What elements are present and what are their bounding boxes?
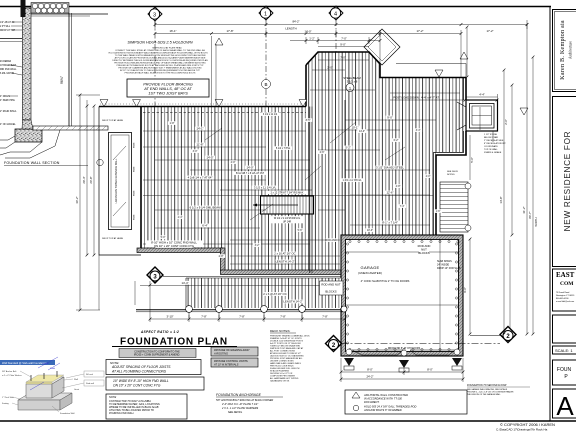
svg-text:78 Dowd Road: 78 Dowd Road [556, 292, 569, 294]
svg-text:B: B [264, 82, 267, 87]
svg-text:8'-5": 8'-5" [306, 119, 311, 122]
garage door drop trapezoids [352, 350, 403, 355]
svg-text:86'-7": 86'-7" [528, 211, 532, 218]
svg-text:6 MIL VAPOR: 6 MIL VAPOR [0, 72, 15, 75]
svg-text:2 PT SILL: 2 PT SILL [0, 26, 11, 28]
svg-text:KNEE: KNEE [134, 190, 136, 196]
svg-text:1 3/4 x 11 7/8 LVL: 1 3/4 x 11 7/8 LVL [342, 179, 362, 182]
svg-text:Foundation Wall: Foundation Wall [60, 412, 75, 415]
svg-text:17'-8": 17'-8" [226, 29, 233, 33]
svg-text:10'-1": 10'-1" [351, 126, 358, 130]
svg-text:GALVANIZED OR SS: GALVANIZED OR SS [270, 380, 290, 383]
svg-text:7'-0": 7'-0" [341, 37, 347, 41]
svg-text:3'-10": 3'-10" [166, 315, 173, 319]
svg-text:DROP AT TOP: DROP AT TOP [0, 29, 16, 32]
svg-text:DROP FND 8" AT OH DOORS: DROP FND 8" AT OH DOORS [388, 347, 421, 350]
svg-text:FOUNDATION TO SECOND FLOOR: FOUNDATION TO SECOND FLOOR [467, 384, 507, 387]
svg-text:14'-0": 14'-0" [304, 29, 311, 33]
svg-text:1ST TWO JOIST BAYS: 1ST TWO JOIST BAYS [148, 92, 188, 96]
svg-text:2'-6": 2'-6" [320, 151, 325, 154]
svg-text:(UNEXCAVATED): (UNEXCAVATED) [358, 271, 382, 275]
wall interior face line [68, 13, 70, 127]
svg-text:ON 10" x 20" CONT CONC FTG: ON 10" x 20" CONT CONC FTG [154, 244, 194, 248]
svg-text:4: 4 [334, 11, 337, 17]
svg-text:POST LOAD DOWN: POST LOAD DOWN [393, 96, 419, 100]
fnd wall box [106, 377, 204, 390]
svg-text:7'-4": 7'-4" [400, 205, 405, 208]
svg-text:1: 1 [264, 11, 267, 17]
paragraph small [108, 47, 208, 75]
svg-text:14'-1": 14'-1" [196, 127, 203, 131]
circle markers [262, 80, 271, 89]
top wall of left block [99, 106, 306, 108]
rotated square (dormer outline above bay) [364, 29, 400, 65]
svg-text:5 1/4 x 7 PSL: 5 1/4 x 7 PSL [276, 147, 291, 150]
svg-text:FOUN: FOUN [557, 367, 572, 373]
svg-text:ROD AND NUT: ROD AND NUT [321, 283, 341, 287]
control joints box [211, 358, 258, 367]
svg-text:Footing: Footing [2, 402, 9, 405]
conform box [119, 349, 196, 358]
svg-text:IN ACCORDANCE WITH TT-100: IN ACCORDANCE WITH TT-100 [364, 397, 402, 401]
svg-text:8" RECESS AT FRONT: 8" RECESS AT FRONT [484, 142, 506, 145]
svg-text:Wall Standard @ Slab-wall Foun: Wall Standard @ Slab-wall Foundation [2, 361, 47, 365]
top dim row 1 [155, 24, 527, 26]
svg-text:17'-2": 17'-2" [486, 29, 493, 33]
svg-text:14'-8": 14'-8" [499, 196, 503, 203]
svg-text:APA PORTAL WALL CONSTRUCTED: APA PORTAL WALL CONSTRUCTED [363, 393, 408, 397]
svg-text:5'-6": 5'-6" [298, 229, 303, 232]
svg-text:2 x 12 STR AT 7 3/4" RIS MAX: 2 x 12 STR AT 7 3/4" RIS MAX [271, 192, 304, 195]
right vertical chains [503, 70, 505, 334]
contractor note box [106, 394, 187, 419]
center stairs [253, 191, 314, 224]
joist field: bay + upper blocks [143, 52, 466, 270]
svg-text:COORDINATE: COORDINATE [484, 145, 498, 148]
svg-text:14'-4": 14'-4" [181, 281, 188, 285]
svg-text:© COPYRIGHT 2006 / KAREN: © COPYRIGHT 2006 / KAREN [500, 422, 555, 427]
svg-text:7'-8": 7'-8" [201, 315, 207, 319]
svg-text:A ROOTING: A ROOTING [213, 353, 228, 356]
svg-text:3 1/2 x 8: 3 1/2 x 8 [347, 80, 358, 84]
svg-text:20'-8": 20'-8" [89, 176, 93, 183]
svg-text:NEW RESIDENCE FOR: NEW RESIDENCE FOR [563, 131, 572, 232]
svg-text:3 1/2" DIA ADJ STEEL: 3 1/2" DIA ADJ STEEL [376, 166, 404, 170]
svg-text:POURING FND WALL: POURING FND WALL [109, 412, 135, 415]
internal dim lines horizontals [143, 130, 306, 132]
svg-text:A: A [556, 391, 574, 421]
top dim row 2 [155, 33, 461, 35]
left deck frame [109, 133, 132, 230]
svg-text:FOUNDATION ANCHORAGE: FOUNDATION ANCHORAGE [216, 393, 262, 397]
svg-text:Architecture: Architecture [569, 41, 573, 59]
svg-text:DOCUMENT.: DOCUMENT. [364, 400, 380, 404]
svg-text:HOLD 505 24 X 5/8" GALL THREAD: HOLD 505 24 X 5/8" GALL THREADED ROD [364, 405, 416, 409]
svg-text:AT 10' W INTERVALS: AT 10' W INTERVALS [213, 364, 239, 367]
svg-text:SIMPSON HDU4-SDS 2.5 HOLDOWN: SIMPSON HDU4-SDS 2.5 HOLDOWN [127, 41, 192, 45]
svg-text:B 1/2 AB 7 x 8 LVL AT JST: B 1/2 AB 7 x 8 LVL AT JST [236, 172, 265, 175]
svg-text:31'-2": 31'-2" [522, 206, 526, 213]
left bottom extension [134, 281, 136, 305]
svg-text:FOUNDATION WALL SECTION: FOUNDATION WALL SECTION [4, 161, 60, 165]
garage right dim vertical [469, 239, 471, 334]
svg-text:1'-6": 1'-6" [436, 210, 441, 213]
svg-text:FOUNDATION PLAN: FOUNDATION PLAN [120, 337, 228, 348]
border frame right [549, 7, 551, 422]
svg-text:2'-8": 2'-8" [219, 255, 224, 258]
svg-text:1'-2": 1'-2" [309, 37, 315, 41]
svg-text:Newington CT 06111: Newington CT 06111 [556, 294, 575, 297]
warning triangle [215, 38, 223, 45]
bottom dims below garage [341, 371, 463, 373]
garage anchor bolts [346, 240, 459, 350]
svg-text:ON 10" x 20" CONT CONC FTG: ON 10" x 20" CONT CONC FTG [113, 384, 161, 388]
svg-text:EAST: EAST [556, 271, 575, 279]
svg-text:4" PERF PIPE: 4" PERF PIPE [0, 100, 15, 102]
svg-text:GARAGE: GARAGE [361, 265, 380, 270]
architect name box [553, 10, 576, 92]
svg-text:2'-6": 2'-6" [504, 119, 508, 125]
bottom dims left plan [140, 285, 330, 287]
svg-text:7'-8": 7'-8" [239, 315, 245, 319]
svg-text:Wall: Wall [74, 379, 78, 381]
svg-text:ASPECT RATIO = 1:2: ASPECT RATIO = 1:2 [140, 330, 179, 334]
svg-text:2 x 6 @ AT 16" OC: 2 x 6 @ AT 16" OC [263, 292, 286, 296]
svg-text:ANCHOR BOLTS 8" OF EMBED: ANCHOR BOLTS 8" OF EMBED [363, 408, 402, 412]
garage [341, 235, 463, 372]
note adjust box [106, 360, 201, 375]
svg-text:96⅛": 96⅛" [60, 75, 64, 84]
svg-text:1'-8": 1'-8" [170, 122, 175, 125]
svg-text:8'-1" x 7 1/4": 8'-1" x 7 1/4" [382, 221, 398, 225]
svg-text:1/2" AB AT 4C: 1/2" AB AT 4C [0, 21, 15, 24]
svg-text:LENGTH 14'-2": LENGTH 14'-2" [283, 300, 302, 304]
svg-text:DROP TOP AT HERE: DROP TOP AT HERE [102, 119, 124, 122]
svg-text:4'-4" x 4'-7" AT: 4'-4" x 4'-7" AT [421, 96, 439, 100]
svg-text:SEE DETAIL: SEE DETAIL [228, 411, 243, 414]
svg-text:14'-0": 14'-0" [246, 166, 253, 170]
dim arrows above [38, 357, 58, 368]
anchor bolts [30, 375, 32, 381]
top dim row 3 [290, 40, 380, 42]
provide grading box [211, 347, 258, 356]
svg-text:2'-0": 2'-0" [327, 66, 333, 70]
svg-text:1" Thick Slab: 1" Thick Slab [2, 397, 15, 399]
svg-text:DECK NOTES:: DECK NOTES: [270, 329, 291, 333]
residence-for box [553, 97, 576, 267]
concrete fnd wall (stippled) [23, 8, 32, 120]
svg-text:2 x 10 AT 16" OC: 2 x 10 AT 16" OC [274, 252, 295, 256]
floor line below insulation [31, 13, 108, 15]
svg-text:4'-0": 4'-0" [231, 161, 236, 164]
svg-text:14'-5": 14'-5" [206, 156, 213, 160]
svg-text:29'-4": 29'-4" [82, 176, 86, 183]
svg-text:24'-2": 24'-2" [366, 375, 373, 379]
svg-text:7'-8": 7'-8" [322, 315, 328, 319]
garage footings [344, 349, 462, 372]
svg-text:30'-2": 30'-2" [75, 196, 79, 203]
svg-text:8'-0": 8'-0" [427, 368, 433, 372]
svg-text:KNEE: KNEE [134, 166, 136, 172]
svg-text:1 1/2" STONE: 1 1/2" STONE [484, 134, 498, 136]
svg-text:MID FND WALL: MID FND WALL [0, 68, 17, 71]
svg-text:3 1/2 x 11 1/4 LVL: 3 1/2 x 11 1/4 LVL [254, 186, 277, 190]
right deck stairs [440, 171, 471, 232]
svg-text:DROP 10" FOR SLAB: DROP 10" FOR SLAB [437, 267, 461, 270]
svg-text:5/8" ANCHOR BOLT SPACING AT BL: 5/8" ANCHOR BOLT SPACING AT BLDG CORNER [216, 399, 273, 402]
svg-text:6'-4": 6'-4" [202, 224, 208, 228]
svg-text:12'-6": 12'-6" [386, 191, 393, 195]
svg-text:8'-0": 8'-0" [367, 368, 373, 372]
svg-text:3'-4": 3'-4" [416, 129, 421, 132]
svg-text:LANDSCAPE TIMBER RETAINING WAL: LANDSCAPE TIMBER RETAINING WALL [115, 158, 118, 203]
deck lower joist field [186, 278, 341, 308]
svg-text:16'-1": 16'-1" [169, 29, 176, 33]
svg-text:7'-8": 7'-8" [280, 315, 286, 319]
svg-text:6 1/2 x 9 1/4 GML BEAM: 6 1/2 x 9 1/4 GML BEAM [190, 206, 222, 210]
svg-text:3: 3 [153, 12, 156, 18]
empty revision box [553, 315, 576, 343]
svg-text:84'-2": 84'-2" [292, 20, 299, 24]
svg-text:2'-0": 2'-0" [426, 175, 431, 178]
svg-text:Width: Width [50, 367, 55, 370]
wall stub [26, 377, 64, 384]
svg-text:KNEE: KNEE [134, 214, 136, 220]
svg-text:SEE DECK: SEE DECK [447, 171, 459, 173]
top right extension verticals [466, 27, 468, 77]
svg-text:ROD AND: ROD AND [326, 239, 337, 242]
svg-text:5'-0": 5'-0" [161, 236, 166, 239]
border frame bottom [0, 420, 576, 422]
svg-text:UP 14R: UP 14R [283, 221, 292, 224]
deck posts row [136, 306, 347, 318]
sheet number box [553, 389, 576, 418]
svg-text:PROVIDE AT EACH WALL IN ADDITI: PROVIDE AT EACH WALL IN ADDITION TO THE … [125, 72, 196, 75]
svg-text:C:\DataCAD 17\Drawings\7th Roc: C:\DataCAD 17\Drawings\7th Rock Ha [496, 428, 548, 432]
footing [15, 129, 42, 142]
dimension tick slashes [79, 23, 535, 380]
grade lines below footing [0, 136, 15, 140]
grade line left of wall [0, 38, 22, 40]
left vertical chains [79, 95, 81, 310]
svg-text:4 2x8 1/4 x 7 AT 64": 4 2x8 1/4 x 7 AT 64" [188, 176, 213, 180]
svg-text:2" RECESS AT SIDE: 2" RECESS AT SIDE [484, 139, 504, 142]
scale strip [553, 346, 576, 354]
sheet title box [553, 360, 576, 385]
svg-text:e-mail kbk@aol.com: e-mail kbk@aol.com [556, 301, 574, 303]
steel beam line [344, 100, 346, 235]
holdown triangles top [100, 70, 528, 115]
slab line [33, 126, 108, 130]
svg-text:3'-2": 3'-2" [255, 244, 260, 247]
dimension labels [75, 20, 538, 379]
svg-text:BELOW STAIR: BELOW STAIR [484, 136, 499, 139]
svg-text:3'-0": 3'-0" [193, 150, 198, 153]
svg-text:NOTES: NOTES [447, 174, 455, 176]
svg-text:AT END WALLS, 48" OC AT: AT END WALLS, 48" OC AT [143, 87, 192, 91]
grid lines [154, 21, 156, 106]
svg-text:9'-0": 9'-0" [387, 116, 393, 120]
scattered joist-field labels [159, 112, 442, 258]
svg-text:AT ALL PLUMBING CONNECTIONS: AT ALL PLUMBING CONNECTIONS [111, 369, 167, 373]
svg-text:BLOCKS: BLOCKS [325, 290, 336, 294]
svg-text:DROP TOP AT HERE: DROP TOP AT HERE [102, 237, 124, 240]
svg-text:STAIRS & GRADE: STAIRS & GRADE [484, 151, 502, 154]
svg-text:3 1/2 x 11 1/4: 3 1/2 x 11 1/4 [263, 113, 278, 116]
svg-text:IRC/05 + CONN SUPPLEMENT & AME: IRC/05 + CONN SUPPLEMENT & AMEND. [134, 354, 180, 357]
white label boxes right [84, 371, 104, 377]
project box EAST/COM [553, 269, 576, 311]
left block left wall [140, 107, 142, 249]
svg-text:TOP OF WALL: TOP OF WALL [484, 148, 499, 151]
svg-text:Sill seal: Sill seal [86, 374, 93, 376]
svg-text:PROVIDE FLOOR BRACING: PROVIDE FLOOR BRACING [143, 83, 193, 87]
svg-text:SCALE: 1: SCALE: 1 [555, 348, 573, 353]
svg-text:Grout: Grout [74, 388, 79, 391]
leader labels [2, 370, 79, 415]
left outer edge [99, 107, 141, 256]
leader labels left of wall [0, 21, 17, 126]
svg-text:LENGTH 14'-2": LENGTH 14'-2" [275, 260, 294, 264]
border frame top [0, 6, 551, 8]
svg-text:5'-6": 5'-6" [470, 157, 474, 163]
right side short dims near stoop [466, 96, 498, 98]
svg-text:Stud wall: Stud wall [86, 382, 95, 385]
svg-text:4'-0" MAX O.C. AT PLATE 7 1/4": 4'-0" MAX O.C. AT PLATE 7 1/4" [222, 403, 258, 406]
svg-text:9'-6": 9'-6" [463, 287, 467, 293]
svg-text:11'-8": 11'-8" [197, 143, 204, 147]
row 4 [318, 46, 369, 48]
portal wall note box [345, 390, 467, 414]
svg-text:14'-0": 14'-0" [359, 130, 365, 133]
svg-text:860-665-0596: 860-665-0596 [556, 298, 569, 300]
svg-text:#4 REBAR: #4 REBAR [0, 60, 11, 63]
concrete base 3d [18, 393, 72, 400]
svg-text:17'-2": 17'-2" [416, 29, 423, 33]
svg-text:4" CONC SLAB PITCH 2" TO OH DO: 4" CONC SLAB PITCH 2" TO OH DOORS [361, 279, 410, 283]
blue dim arrows [30, 382, 44, 390]
svg-text:THE LENGTH OF THE GARAGE WALL: THE LENGTH OF THE GARAGE WALL [467, 393, 501, 396]
grid markers top [147, 6, 516, 352]
svg-text:KNEE: KNEE [134, 142, 136, 148]
floor bracing box [127, 79, 209, 97]
svg-text:2'-4": 2'-4" [178, 216, 183, 219]
svg-text:2" RIGID INSUL: 2" RIGID INSUL [0, 111, 17, 113]
svg-text:5'-2": 5'-2" [345, 146, 351, 150]
svg-text:NOTE: NOTE [109, 395, 116, 399]
wall outlines [306, 52, 466, 78]
front stoop [457, 100, 506, 154]
svg-text:4" OF GRAVEL: 4" OF GRAVEL [0, 123, 16, 126]
svg-text:LENGTH: LENGTH [285, 27, 296, 31]
svg-text:BLOCKS: BLOCKS [418, 251, 429, 255]
svg-text:6'-2": 6'-2" [394, 139, 399, 142]
svg-text:4'-4": 4'-4" [479, 93, 485, 97]
interior bearing wall line [309, 107, 311, 274]
sill plates yellow [26, 375, 64, 382]
svg-text:4" DRAIN: 4" DRAIN [0, 95, 10, 98]
svg-text:Length: Length [42, 362, 49, 365]
svg-text:2 X 4 - 1 1/2" PLATE WASHERS: 2 X 4 - 1 1/2" PLATE WASHERS [221, 407, 259, 410]
svg-text:w 2 x 4" Plate Washer: w 2 x 4" Plate Washer [2, 374, 22, 377]
svg-text:9'-0": 9'-0" [340, 43, 346, 47]
svg-text:5/8" Anchor Bolt: 5/8" Anchor Bolt [2, 370, 17, 373]
svg-text:7'-0": 7'-0" [340, 56, 346, 60]
sill black bar [21, 0, 26, 17]
svg-text:10'-0": 10'-0" [367, 229, 373, 232]
svg-text:10" WIDE BY 8'-10" HIGH FND W: 10" WIDE BY 8'-10" HIGH FND WALL [113, 379, 169, 383]
svg-text:WIDTH: WIDTH [534, 217, 538, 226]
svg-text:COM: COM [560, 281, 574, 287]
svg-text:Karen B. Kempton aia: Karen B. Kempton aia [559, 20, 566, 80]
svg-text:4'-8": 4'-8" [396, 185, 401, 188]
